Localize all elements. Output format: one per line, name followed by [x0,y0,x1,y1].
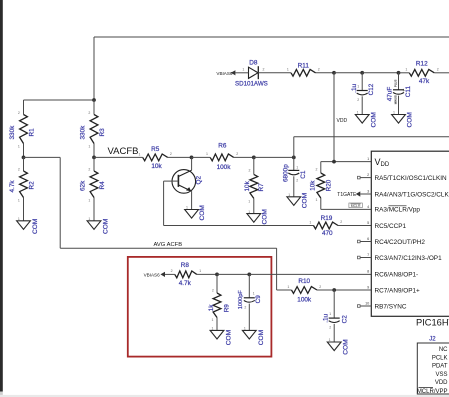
svg-text:COM: COM [225,330,232,345]
svg-text:R10: R10 [298,278,310,285]
svg-text:R12: R12 [416,60,428,67]
wire VDD to pin 1 [321,160,372,164]
ground COM below Q2 [185,205,207,220]
svg-text:R19: R19 [321,215,333,222]
ground COM below R7 [247,209,269,224]
svg-text:RC5/CCP1: RC5/CCP1 [375,223,407,230]
svg-text:R9: R9 [223,304,230,313]
svg-text:1: 1 [244,327,246,331]
svg-text:J2: J2 [429,337,436,343]
svg-text:R3: R3 [99,128,106,137]
svg-text:C11: C11 [405,86,412,98]
svg-text:2: 2 [18,111,20,115]
svg-text:1: 1 [288,193,290,197]
svg-text:C9: C9 [255,295,262,304]
wire R7 node to C1 [254,156,296,160]
wire C1 node riser to right edge [294,137,449,158]
net flag VBIAS6 [216,70,245,76]
svg-text:1: 1 [186,206,188,210]
ground COM below R2 [17,217,39,234]
svg-text:2: 2 [319,285,321,289]
svg-text:R4: R4 [99,181,106,190]
wire Q2 base to R19 [164,181,314,225]
svg-text:6800p: 6800p [283,164,290,182]
wire net AVG ACFB: R1/R2 junction to R10 [24,157,292,290]
svg-text:PLUS: PLUS [394,80,398,87]
svg-text:1: 1 [367,157,369,161]
highlight red box [128,257,272,357]
window left border [0,0,3,397]
svg-text:2: 2 [296,178,298,182]
svg-text:COM: COM [342,339,349,354]
svg-text:470: 470 [322,230,333,237]
pin 10 stub [358,305,372,308]
svg-text:1: 1 [18,217,20,221]
svg-text:COM: COM [261,209,268,224]
svg-text:1: 1 [88,217,90,221]
svg-text:MCLR: MCLR [351,204,361,208]
svg-text:6: 6 [367,237,369,241]
resistor R8 4.7k [171,262,217,287]
resistor R1 330k [9,100,36,157]
svg-text:R6: R6 [218,143,227,150]
svg-text:1: 1 [296,165,298,169]
svg-text:MCLR/VPP: MCLR/VPP [417,389,448,395]
svg-text:RC7/AN9/OP1+: RC7/AN9/OP1+ [375,287,421,294]
ground COM below C1 [287,193,308,208]
svg-text:1: 1 [206,152,208,156]
svg-text:4.7k: 4.7k [9,180,16,193]
svg-text:VDD: VDD [337,118,348,124]
svg-text:COM: COM [407,112,414,127]
svg-text:COM: COM [102,219,109,234]
transistor Q2 NPN [164,157,203,209]
svg-text:R5: R5 [151,146,160,153]
net flag T1GATE pin 3 [337,191,371,198]
svg-text:VDD: VDD [435,380,448,386]
svg-text:1: 1 [253,291,255,295]
node C2 top [332,288,336,292]
svg-text:2: 2 [340,220,342,224]
wire top rail [94,37,449,100]
ground COM below R4 [87,217,109,234]
window bottom border [0,395,449,397]
svg-text:C12: C12 [368,83,375,95]
svg-text:1k: 1k [208,304,215,312]
svg-text:1: 1 [88,144,90,148]
svg-text:2: 2 [18,168,20,172]
svg-text:2: 2 [244,306,246,310]
resistor R12 47k [405,60,449,85]
resistor R4 62k [79,157,106,220]
node C9 top [247,273,371,277]
svg-text:2: 2 [212,288,214,292]
svg-text:RC3/AN7/C12IN3-/OP1: RC3/AN7/C12IN3-/OP1 [375,255,443,262]
svg-text:1: 1 [287,285,289,289]
svg-text:2: 2 [357,98,359,102]
svg-text:VBIAS6: VBIAS6 [144,272,161,277]
svg-text:PIC16HV785: PIC16HV785 [416,318,449,328]
ground COM below C11 [392,111,414,128]
svg-text:2: 2 [263,67,265,71]
svg-text:2: 2 [437,68,439,72]
svg-text:2: 2 [236,152,238,156]
resistor R3 330k [79,100,106,157]
svg-text:10k: 10k [151,163,162,170]
svg-text:R20: R20 [325,179,332,191]
svg-text:VSS: VSS [435,372,447,378]
svg-text:2: 2 [170,152,172,156]
svg-text:100k: 100k [217,164,232,171]
resistor R9 1k [208,274,230,330]
svg-text:R11: R11 [298,63,310,70]
svg-text:C2: C2 [342,315,349,324]
svg-text:PCLK: PCLK [432,355,448,361]
capacitor C9 1000pF [238,274,262,330]
svg-text:330k: 330k [9,125,16,140]
svg-text:1: 1 [393,111,395,115]
svg-text:C1: C1 [300,170,307,179]
svg-text:10k: 10k [310,180,317,191]
svg-text:1000pF: 1000pF [238,290,244,310]
svg-text:47k: 47k [419,78,430,85]
capacitor C12 .1u [351,73,375,115]
IC name PIC16HV785 [416,318,449,328]
net flag VBIAS6 (R8) [144,272,175,278]
svg-text:10: 10 [365,301,369,305]
svg-text:COM: COM [370,112,377,127]
svg-text:1: 1 [357,85,359,89]
connector J2 [417,337,449,396]
capacitor C2 .1u [322,290,348,342]
svg-text:5: 5 [367,221,369,225]
svg-text:COM: COM [32,219,39,234]
pin numbers [365,157,369,305]
label MCLR boxed [349,203,362,208]
svg-text:T1GATE: T1GATE [337,192,357,198]
svg-text:RA4/AN3/T1G/OSC2/CLK: RA4/AN3/T1G/OSC2/CLK [375,191,449,198]
svg-text:1: 1 [405,68,407,72]
resistor R20 10k [310,162,333,210]
svg-text:1: 1 [287,68,289,72]
node R9 top [215,273,249,277]
ground COM below C9 [242,327,264,346]
svg-text:RB7/SYNC: RB7/SYNC [375,303,407,310]
pin 6 stub [358,240,372,243]
diode D8 SD101AWS [235,59,291,87]
svg-text:100k: 100k [297,297,312,304]
svg-text:2: 2 [316,167,318,171]
svg-text:1: 1 [357,111,359,115]
svg-text:RA5/T1CKI/OSC1/CLKIN: RA5/T1CKI/OSC1/CLKIN [375,175,447,182]
svg-text:1: 1 [242,67,244,71]
node junction R1/R3 top [24,98,96,102]
svg-text:PDAT: PDAT [432,364,448,370]
resistor R5 10k [139,146,192,170]
svg-text:VBIAS6: VBIAS6 [216,71,233,76]
svg-text:1: 1 [199,269,201,273]
ground COM below C12 [355,111,377,128]
svg-text:2: 2 [249,169,251,173]
svg-text:R1: R1 [28,128,35,137]
svg-text:1: 1 [139,152,141,156]
svg-text:1: 1 [18,198,20,202]
svg-text:COM: COM [301,193,308,208]
svg-text:2: 2 [318,68,320,72]
svg-text:62k: 62k [79,180,86,191]
op IC U1 PIC16HV785 box [371,151,449,316]
node VACFB junction R3/R4 [92,156,96,160]
wire VACFB [94,156,143,158]
svg-text:1: 1 [88,198,90,202]
svg-text:COM: COM [199,205,206,220]
wire R20 to pin 4 [321,208,372,210]
svg-text:RA3/MCLR/Vpp: RA3/MCLR/Vpp [375,207,421,214]
node Q2 collector junction [190,156,194,160]
wire VDD down to PIC [334,73,347,162]
net label VACFB [108,146,139,157]
svg-text:2: 2 [367,173,369,177]
svg-text:10k: 10k [244,180,251,191]
svg-text:2: 2 [329,325,331,329]
node C12 top [360,71,398,75]
svg-text:1: 1 [329,312,331,316]
svg-text:47uF: 47uF [387,87,394,102]
svg-text:Q2: Q2 [196,176,203,185]
pin 7 stub [358,256,372,259]
svg-text:1: 1 [316,198,318,202]
svg-text:R2: R2 [28,181,35,190]
resistor R11 [287,63,334,77]
svg-text:1: 1 [248,210,250,214]
svg-text:2: 2 [88,168,90,172]
svg-text:R7: R7 [258,183,265,192]
node R6/R7 junction [252,156,256,160]
svg-text:1: 1 [212,318,214,322]
net label AVG ACFB [154,242,183,248]
capacitor C11 47uF polarized [387,73,412,115]
resistor R7 10k [244,157,265,213]
ground COM below R9 [210,327,232,346]
svg-text:330k: 330k [79,125,86,140]
node R1/R2 junction [22,156,26,160]
resistor R6 100k [192,143,254,171]
svg-text:1: 1 [309,220,311,224]
svg-text:1: 1 [18,144,20,148]
pin 2 stub [358,176,372,179]
svg-text:2: 2 [171,269,173,273]
node C11 top [397,71,410,75]
resistor R2 4.7k [9,157,36,220]
svg-text:RC4/C2OUT/PH2: RC4/C2OUT/PH2 [375,239,426,246]
svg-text:3: 3 [367,189,369,193]
svg-text:NC: NC [439,347,448,353]
svg-text:1: 1 [212,327,214,331]
svg-text:D8: D8 [249,59,258,66]
svg-text:R8: R8 [181,262,190,269]
resistor R19 470 [309,215,371,237]
node VDD rail junction [332,71,362,75]
svg-text:4.7k: 4.7k [179,280,192,287]
svg-text:2: 2 [88,111,90,115]
svg-text:8: 8 [367,269,369,273]
svg-text:AVG ACFB: AVG ACFB [154,242,183,248]
svg-text:9: 9 [367,285,369,289]
svg-text:4: 4 [367,205,369,209]
svg-text:VACFB: VACFB [108,146,139,157]
svg-text:1: 1 [248,200,250,204]
ground COM below C2 [327,338,349,355]
svg-text:COM: COM [258,330,265,345]
svg-text:SD101AWS: SD101AWS [235,80,268,87]
resistor R10 100k [287,278,371,304]
svg-text:1: 1 [329,338,331,342]
svg-text:7: 7 [367,253,369,257]
capacitor C1 6800p [283,157,307,196]
svg-text:MINUS: MINUS [394,95,398,104]
pin labels [375,157,449,310]
svg-text:RC6/AN8/OP1-: RC6/AN8/OP1- [375,271,419,278]
